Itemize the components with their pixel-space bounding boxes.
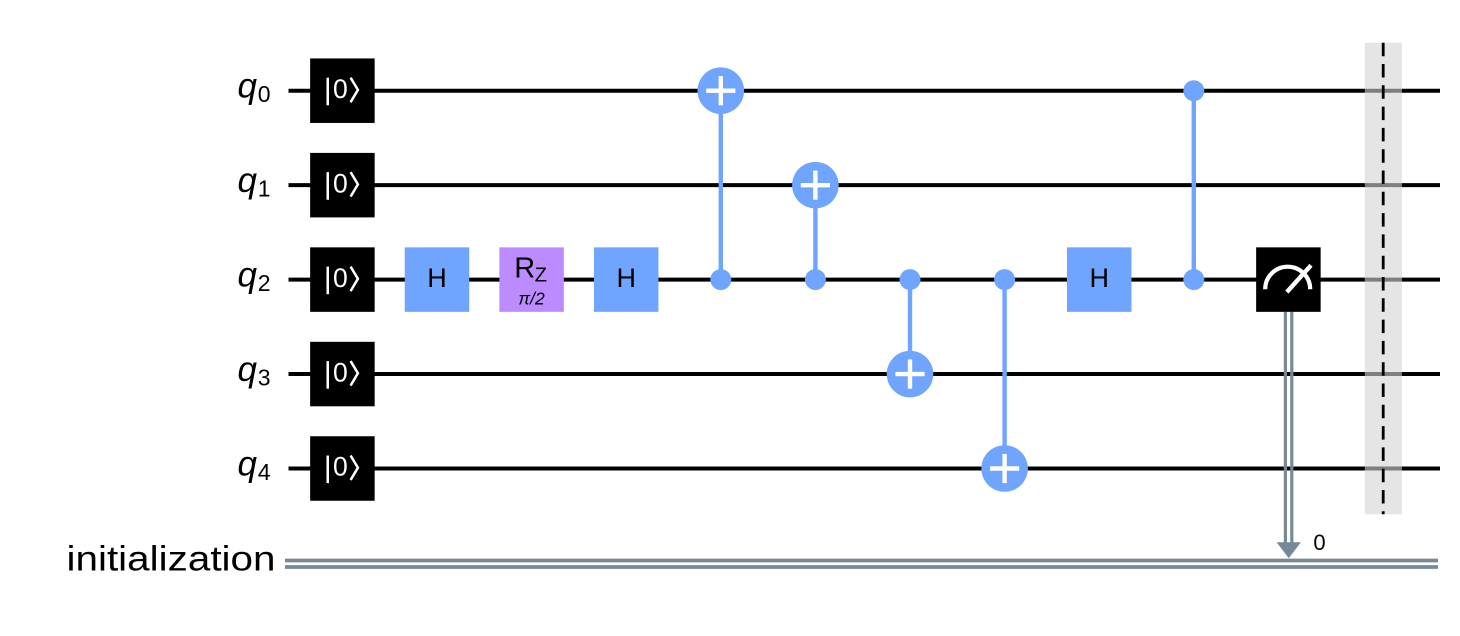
svg-text:H: H [1089,263,1109,293]
svg-text:q: q [238,350,258,389]
svg-text:0: 0 [333,357,348,387]
svg-text:q: q [238,255,258,294]
svg-text:3: 3 [258,365,271,391]
svg-text:R: R [514,253,535,285]
svg-text:q: q [238,161,258,200]
svg-text:0: 0 [1313,530,1325,555]
svg-text:q: q [238,444,258,483]
svg-text:H: H [427,263,447,293]
svg-text:0: 0 [333,74,348,104]
svg-text:2: 2 [258,270,271,296]
svg-text:0: 0 [333,452,348,482]
svg-text:initialization: initialization [67,539,276,579]
svg-text:1: 1 [258,176,271,202]
svg-text:0: 0 [333,263,348,293]
svg-text:Z: Z [535,264,547,286]
svg-text:4: 4 [258,459,271,485]
svg-text:0: 0 [258,81,271,107]
svg-text:0: 0 [333,168,348,198]
svg-text:π/2: π/2 [518,289,545,309]
svg-text:H: H [616,263,636,293]
svg-text:q: q [238,67,258,106]
